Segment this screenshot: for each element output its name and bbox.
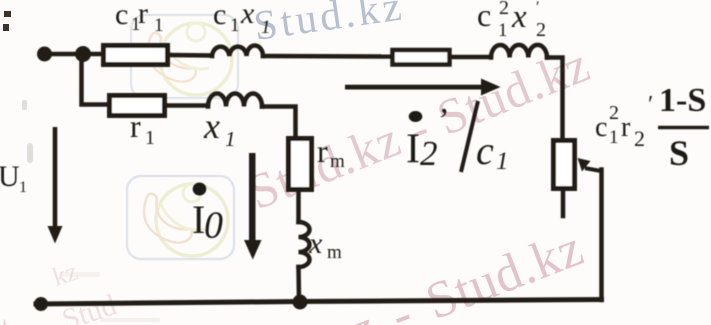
resistor c1^2r2' (rotor resistance, unlabeled) — [393, 50, 450, 65]
wire: variable-resistor arrow tail from right line — [587, 169, 601, 172]
svg-text:1: 1 — [154, 15, 164, 36]
wire: r2 to inductor c1^2x2' — [450, 55, 491, 60]
svg-text:1: 1 — [498, 20, 508, 41]
svg-text:1: 1 — [261, 17, 271, 38]
wire: variable-resistor wiper arrowhead — [578, 158, 591, 172]
svg-text:2: 2 — [420, 134, 438, 173]
node: left input terminal (top) — [37, 47, 52, 62]
svg-text:x: x — [511, 0, 527, 35]
scan smudges — [22, 100, 160, 322]
svg-text:2: 2 — [536, 19, 546, 41]
svg-text:1: 1 — [145, 127, 155, 149]
svg-text:0: 0 — [204, 205, 223, 247]
svg-text:x: x — [308, 227, 323, 260]
svg-text:r: r — [621, 112, 631, 143]
wire: right vertical line — [599, 170, 604, 301]
svg-text:1-S: 1-S — [659, 82, 706, 119]
svg-text:S: S — [669, 133, 689, 173]
node: bottom junction of magnetizing branch — [293, 295, 308, 310]
wire: bottom return — [36, 300, 602, 305]
svg-text:x: x — [240, 0, 255, 30]
svg-text:I: I — [406, 127, 420, 173]
svg-text:′: ′ — [536, 0, 540, 16]
resistor r1 — [110, 96, 165, 116]
svg-text:1: 1 — [496, 148, 509, 175]
watermark logo (top) — [131, 15, 238, 98]
svg-text:1: 1 — [230, 15, 240, 36]
wire: xm to bottom junction — [296, 267, 301, 301]
scan specks top-left — [3, 11, 11, 31]
svg-text:2: 2 — [499, 0, 509, 19]
node: bottom-left terminal — [34, 297, 48, 311]
wire: stub below load resistor — [561, 189, 566, 216]
arrow I0 (current, down) — [244, 153, 262, 260]
wire: x1 to magnetizing branch corner, down — [262, 107, 296, 139]
svg-text:c: c — [595, 112, 607, 143]
svg-text:U: U — [0, 160, 20, 193]
wire: terminal to junction — [44, 52, 83, 57]
svg-text:’: ’ — [436, 102, 447, 139]
resistor load c1^2r2'(1-S)/S (vertical) — [554, 141, 575, 189]
inductor c1x1 — [212, 46, 263, 56]
svg-text:r: r — [130, 108, 141, 144]
arrow I2'/c1 (current, right) — [345, 79, 501, 96]
svg-text:c: c — [213, 0, 226, 31]
svg-text:m: m — [327, 242, 342, 263]
label I0 with dot — [193, 183, 207, 196]
resistor c1r1 — [104, 46, 168, 65]
wire: rm to xm — [296, 190, 301, 222]
wire: c1r1 to inductor c1x1 — [168, 53, 212, 58]
inductor x1 — [208, 94, 262, 107]
inductor xm — [299, 222, 310, 267]
arrow U1 (voltage, down) — [48, 127, 63, 244]
svg-text:c: c — [476, 128, 494, 173]
watermark logo (middle-left) — [127, 176, 234, 259]
svg-text:r: r — [317, 133, 328, 169]
svg-text:1: 1 — [19, 179, 27, 196]
wire: junction to resistor c1r1 — [83, 52, 103, 57]
wire: junction down (branch 2) — [82, 58, 110, 105]
svg-text:r: r — [138, 0, 148, 30]
svg-text:1: 1 — [609, 127, 619, 148]
svg-text:′: ′ — [648, 92, 653, 118]
svg-text:c: c — [115, 0, 128, 31]
svg-text:x: x — [203, 106, 220, 146]
svg-text:c: c — [477, 0, 491, 33]
svg-text:2: 2 — [634, 126, 645, 151]
resistor rm — [289, 139, 312, 190]
svg-text:2: 2 — [609, 102, 619, 124]
inductor c1^2x2' — [491, 45, 547, 58]
wire: inductor to top-right corner, down to load resistor — [547, 58, 563, 141]
wire: r1 to inductor x1 — [165, 103, 208, 108]
wire: c1x1 to resistor r2 — [263, 54, 392, 59]
label I2'/c1 with dot — [409, 111, 423, 122]
node A: top junction — [75, 46, 91, 62]
svg-text:m: m — [330, 151, 345, 172]
svg-text:1: 1 — [225, 127, 236, 151]
